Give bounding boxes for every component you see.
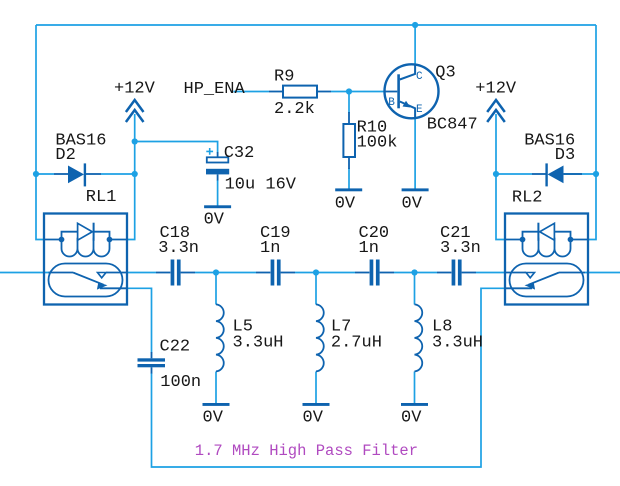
wire main line into RL1 [0, 272, 50, 274]
ground R10 0V [335, 188, 362, 191]
relay RL1 [44, 214, 127, 305]
svg-text:D3: D3 [555, 146, 575, 165]
wire Q3 collector [414, 25, 416, 66]
ground L5 0V [203, 403, 230, 406]
svg-text:C22: C22 [160, 338, 191, 357]
ground L8 0V [401, 403, 428, 406]
svg-text:+12V: +12V [475, 79, 517, 98]
inductor L8 [415, 304, 423, 371]
svg-text:0V: 0V [204, 211, 225, 230]
svg-text:1n: 1n [260, 239, 280, 258]
RL2 switch stadium [510, 264, 584, 297]
wire top rail [36, 24, 596, 26]
svg-text:B: B [388, 97, 395, 109]
wire D3 cathode [496, 173, 532, 175]
capacitor C19 [256, 260, 295, 286]
wire Q3 emitter to ground [414, 117, 416, 189]
RL2 flyback diode [523, 232, 571, 240]
wire C20 to C21 [394, 272, 437, 274]
svg-text:0V: 0V [203, 409, 224, 428]
wire C18 to C19 [195, 272, 256, 274]
svg-text:3.3uH: 3.3uH [432, 334, 483, 353]
RL2 switch [559, 272, 585, 274]
RL2 coil [505, 239, 523, 241]
inductor L7 [316, 304, 324, 371]
svg-text:R9: R9 [274, 68, 294, 87]
ground Q3 emitter 0V [402, 188, 429, 191]
wire L7 to ground [315, 372, 317, 404]
wire RL1 lower contact to C22 [127, 288, 152, 352]
svg-text:1.7 MHz High Pass Filter: 1.7 MHz High Pass Filter [195, 442, 418, 460]
node junction +12V/C32 [132, 138, 138, 144]
wire D2 cathode [101, 173, 135, 175]
wire RL1 to C18 [127, 272, 156, 274]
capacitor C21 [437, 260, 476, 286]
wire left border down to D2 [35, 25, 37, 174]
node junction L8 [411, 269, 417, 275]
node junction collector top rail [412, 22, 418, 28]
svg-text:C32: C32 [224, 144, 255, 163]
wire RL2 out right [585, 272, 620, 274]
capacitor C22 [138, 352, 166, 374]
wire R9 to Q3 base [331, 91, 385, 93]
svg-text:0V: 0V [303, 409, 324, 428]
svg-text:D2: D2 [55, 146, 75, 165]
svg-text:3.3n: 3.3n [440, 239, 481, 258]
ground L7 0V [303, 403, 330, 406]
wire C19 to C20 [295, 272, 355, 274]
svg-text:HP_ENA: HP_ENA [184, 80, 246, 99]
wire right border down to D3 [595, 25, 597, 174]
svg-text:E: E [416, 104, 423, 116]
capacitor C18 [156, 260, 195, 286]
wire HP_ENA to R9 [234, 91, 270, 93]
transistor Q3 [385, 64, 439, 118]
svg-text:3.3uH: 3.3uH [233, 334, 284, 353]
power +12V symbol left [126, 100, 144, 122]
wire RL1 coil left drop [36, 174, 45, 240]
node junction L5 [213, 269, 219, 275]
svg-text:Q3: Q3 [435, 64, 455, 83]
RL1 switch stadium [49, 264, 123, 297]
wire +12V right drop to RL2 coil [496, 114, 505, 240]
diode D2 [54, 163, 101, 186]
capacitor C32 [206, 148, 229, 181]
svg-text:BC847: BC847 [427, 116, 478, 135]
relay RL2 [505, 214, 588, 305]
wire RL2 coil right drop [588, 174, 596, 240]
svg-text:0V: 0V [335, 195, 356, 214]
capacitor C20 [355, 260, 394, 286]
wire R10 top [348, 92, 350, 114]
wire L5 tap [215, 273, 217, 305]
svg-text:0V: 0V [401, 409, 422, 428]
svg-text:1n: 1n [359, 239, 379, 258]
svg-text:C: C [416, 71, 423, 83]
wire L8 to ground [414, 372, 416, 404]
svg-text:RL1: RL1 [86, 188, 117, 207]
svg-text:100k: 100k [357, 134, 398, 153]
node junction R9/R10 [346, 88, 352, 94]
RL1 switch [49, 272, 74, 274]
wire L8 tap [414, 273, 416, 305]
resistor R9 [269, 86, 331, 98]
svg-text:RL2: RL2 [512, 188, 543, 207]
wire C32 to ground [217, 180, 219, 206]
node junction D2 left [33, 171, 39, 177]
wire L7 tap [315, 273, 317, 305]
node junction D2 right [132, 171, 138, 177]
node junction D3 right [593, 171, 599, 177]
wire +12V left drop through D2 to RL1 coil [127, 114, 135, 240]
svg-text:10u 16V: 10u 16V [225, 176, 297, 195]
svg-text:+12V: +12V [114, 79, 156, 98]
wire C21 to RL2 [476, 272, 505, 274]
node junction L7 [313, 269, 319, 275]
svg-text:2.2k: 2.2k [274, 100, 315, 119]
wire D2 anode [36, 173, 54, 175]
wire R10 bottom to ground [348, 168, 350, 189]
node junction D3 left [493, 171, 499, 177]
svg-text:100n: 100n [160, 373, 201, 392]
ground C32 0V [204, 205, 231, 208]
inductor L5 [216, 304, 224, 371]
wire L5 to ground [215, 372, 217, 404]
svg-text:0V: 0V [402, 195, 423, 214]
wire C22 bottom rail to RL2 lower contact [152, 288, 506, 467]
diode D3 [532, 163, 582, 186]
svg-text:2.7uH: 2.7uH [331, 333, 382, 352]
RL1 flyback diode [62, 232, 110, 240]
svg-text:3.3n: 3.3n [158, 239, 199, 258]
wire D3 anode [564, 173, 596, 175]
resistor R10 [343, 112, 355, 169]
power +12V symbol right [487, 100, 505, 122]
wire C32 branch [135, 142, 218, 153]
RL1 coil [45, 239, 62, 241]
